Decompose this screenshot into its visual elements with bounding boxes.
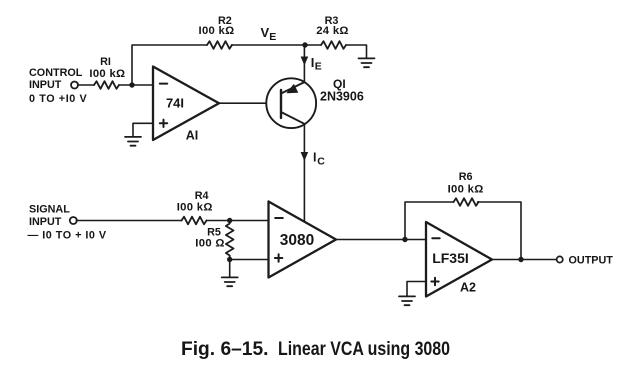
svg-text:R6: R6 (459, 171, 473, 183)
resistor R2 100 k (199, 15, 235, 49)
wire (VE to Q1 emitter) (303, 45, 305, 82)
op-amp U2 3080 (269, 202, 337, 278)
label SIGNAL INPUT -10 TO +10 V (28, 204, 107, 242)
svg-text:I: I (311, 55, 315, 70)
wire (132, 45, 207, 85)
svg-text:I00 kΩ: I00 kΩ (448, 184, 484, 196)
svg-text:3080: 3080 (280, 232, 314, 249)
caption Fig. 6-15 (181, 339, 450, 360)
ground (below R5) (222, 277, 238, 286)
svg-text:V: V (261, 25, 270, 40)
svg-text:R4: R4 (195, 190, 209, 202)
svg-text:LF35I: LF35I (432, 250, 469, 266)
label CONTROL INPUT 0 TO +10 V (29, 67, 88, 105)
op-amp U3 LF351 (A2) (426, 222, 492, 297)
svg-text:2N3906: 2N3906 (320, 90, 364, 104)
svg-text:E: E (269, 31, 276, 43)
node E (output / feedback junction) (518, 257, 523, 262)
wire (741 + input to ground) (133, 123, 153, 136)
svg-text:I00 kΩ: I00 kΩ (199, 25, 235, 37)
node VE (261, 25, 308, 48)
resistor R4 100 k (177, 190, 213, 224)
terminal: SIGNAL INPUT (70, 217, 77, 224)
wire (346, 45, 367, 58)
svg-text:INPUT: INPUT (29, 216, 62, 228)
wire (LF351 output) (492, 259, 557, 261)
svg-text:Fig. 6–15.: Fig. 6–15. (181, 339, 269, 360)
svg-text:OUTPUT: OUTPUT (569, 255, 614, 267)
resistor R6 100 k (448, 171, 484, 206)
node B (R4 / R5 / 3080 inverting) (227, 218, 232, 223)
node C (R5 / 3080 non-inverting / ground) (227, 257, 232, 262)
svg-text:I00 kΩ: I00 kΩ (89, 68, 125, 80)
wire (229, 260, 231, 278)
terminal: OUTPUT (557, 255, 614, 267)
wire (LF351 + input to ground) (407, 282, 426, 297)
ground (LF351 + input) (399, 296, 415, 305)
wire (230, 259, 268, 261)
resistor R1 100 k (89, 56, 125, 89)
wire (Q1 collector to 3080 bias input) (303, 124, 305, 222)
svg-text:I: I (313, 151, 316, 165)
svg-text:AI: AI (186, 129, 199, 143)
node D (feedback junction) (402, 237, 407, 242)
svg-text:SIGNAL: SIGNAL (29, 204, 70, 216)
wire (feedback right leg) (478, 202, 522, 260)
resistor R3 24 k (316, 15, 349, 49)
svg-text:RI: RI (100, 56, 111, 68)
svg-text:0 TO +I0 V: 0 TO +I0 V (29, 93, 88, 105)
ground (at R3) (359, 58, 375, 67)
wire (3080 output to LF351 inverting) (336, 239, 426, 241)
svg-text:A2: A2 (460, 281, 476, 295)
wire (feedback left leg) (405, 202, 454, 240)
svg-text:Linear VCA using 3080: Linear VCA using 3080 (278, 339, 450, 360)
svg-text:E: E (315, 61, 322, 73)
svg-text:I00 kΩ: I00 kΩ (177, 202, 213, 214)
wire (232, 44, 322, 46)
resistor R5 100 ohm (195, 221, 233, 260)
transistor Q1 2N3906 (266, 77, 364, 128)
wire (741 output to Q1 base) (219, 102, 281, 104)
wire (78, 84, 94, 86)
svg-text:74I: 74I (166, 96, 184, 111)
svg-text:CONTROL: CONTROL (29, 67, 83, 79)
svg-text:INPUT: INPUT (29, 79, 62, 91)
svg-text:C: C (317, 156, 325, 168)
wire (76, 220, 181, 222)
wire (207, 220, 269, 222)
current arrow IC (301, 151, 326, 168)
svg-text:— I0 TO + I0 V: — I0 TO + I0 V (28, 230, 107, 242)
node A (R1 / 741 inverting / R2 junction) (129, 82, 134, 87)
svg-text:I00 Ω: I00 Ω (195, 238, 224, 250)
svg-text:24 kΩ: 24 kΩ (316, 25, 349, 37)
wire (119, 84, 153, 86)
current arrow IE (301, 55, 322, 73)
terminal: CONTROL INPUT (71, 82, 78, 89)
ground (741 + input) (125, 137, 141, 146)
op-amp U1 741 (A1) (153, 67, 219, 143)
